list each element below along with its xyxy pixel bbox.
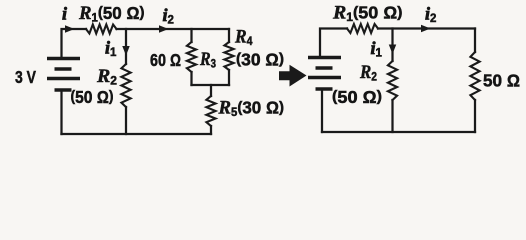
wire: R2 bottom down to bottom rail [125,107,127,134]
wire: battery negative down to bottom rail [60,90,62,134]
resistor R1 right (horizontal zigzag) [347,24,378,33]
wire: connector down to R5 top [210,85,212,96]
wire: battery positive up to top-left corner and to R1 [62,29,87,58]
battery 3V: short plate bottom [55,88,72,92]
svg-text:i2: i2 [163,5,174,27]
svg-text:R1(50 Ω): R1(50 Ω) [332,3,403,25]
wire: top rail junction down to R3 [190,29,192,42]
svg-text:i2: i2 [425,4,436,26]
node A: branch wire down to R2 with current arrow i1 [125,29,127,64]
wire: right battery positive up to corner and to R1 [320,29,347,58]
battery right: long plate top [308,56,341,60]
current arrow i2 on top wire [159,25,169,33]
svg-text:50 Ω: 50 Ω [483,71,520,91]
battery 3V: short plate upper [55,67,72,71]
bottom rail wire (right circuit) [322,131,475,133]
battery right: short plate bottom [316,87,333,91]
battery right: short plate upper [316,66,333,70]
resistor 50 ohm equivalent (vertical zigzag) [470,52,479,100]
resistor R2 (vertical zigzag) [121,64,130,107]
svg-text:i1: i1 [105,38,117,60]
resistor R4 (vertical zigzag) [224,42,233,70]
battery right: long plate lower [308,76,341,80]
resistor R3 (vertical zigzag, 60 ohm) [187,42,196,72]
svg-text:R4: R4 [234,27,253,49]
svg-text:3 V: 3 V [15,67,36,87]
svg-text:(50 Ω): (50 Ω) [332,87,382,107]
svg-text:R3: R3 [199,49,216,71]
big black implication arrow between circuits [279,65,307,87]
svg-text:R1(50 Ω): R1(50 Ω) [78,3,144,25]
svg-text:i1: i1 [371,38,383,60]
resistor R5 (vertical zigzag) [206,96,215,126]
wire: 50 ohm bottom to rail [474,100,476,132]
svg-text:(50 Ω): (50 Ω) [71,87,114,107]
svg-text:R2: R2 [359,62,377,84]
battery 3V: long plate lower [47,77,80,81]
wire: R5 bottom to rail [210,126,212,134]
svg-text:R2: R2 [96,66,117,88]
node branch down with current arrow i1 right [391,29,393,62]
resistor R1 (horizontal zigzag) [86,25,117,34]
svg-text:60 Ω: 60 Ω [150,50,181,70]
current arrow i on top wire [65,25,75,33]
resistor R2 right (vertical zigzag) [388,61,397,100]
wire: R3 bottom stub [190,72,192,85]
wire: top-right corner down to R4 [228,29,230,42]
svg-text:R5(30 Ω): R5(30 Ω) [218,98,284,120]
battery 3V: long plate top [47,57,80,61]
wire: right corner down to 50 ohm resistor [474,29,476,53]
svg-text:i: i [62,3,67,23]
wire: R2 right bottom to rail [391,100,393,132]
current arrow i2 right [421,25,431,33]
svg-text:(30 Ω): (30 Ω) [236,50,284,70]
wire: right battery negative down to rail [321,89,323,132]
wire: connector joining R3 and R4 bottoms [192,84,230,86]
bottom rail wire (left circuit) [62,133,212,135]
wire: R4 bottom stub [228,70,230,85]
wire: R1 right to node and right corner [378,27,475,29]
wire: R1 to node A, on to R3 top and top-right corner [117,28,230,30]
